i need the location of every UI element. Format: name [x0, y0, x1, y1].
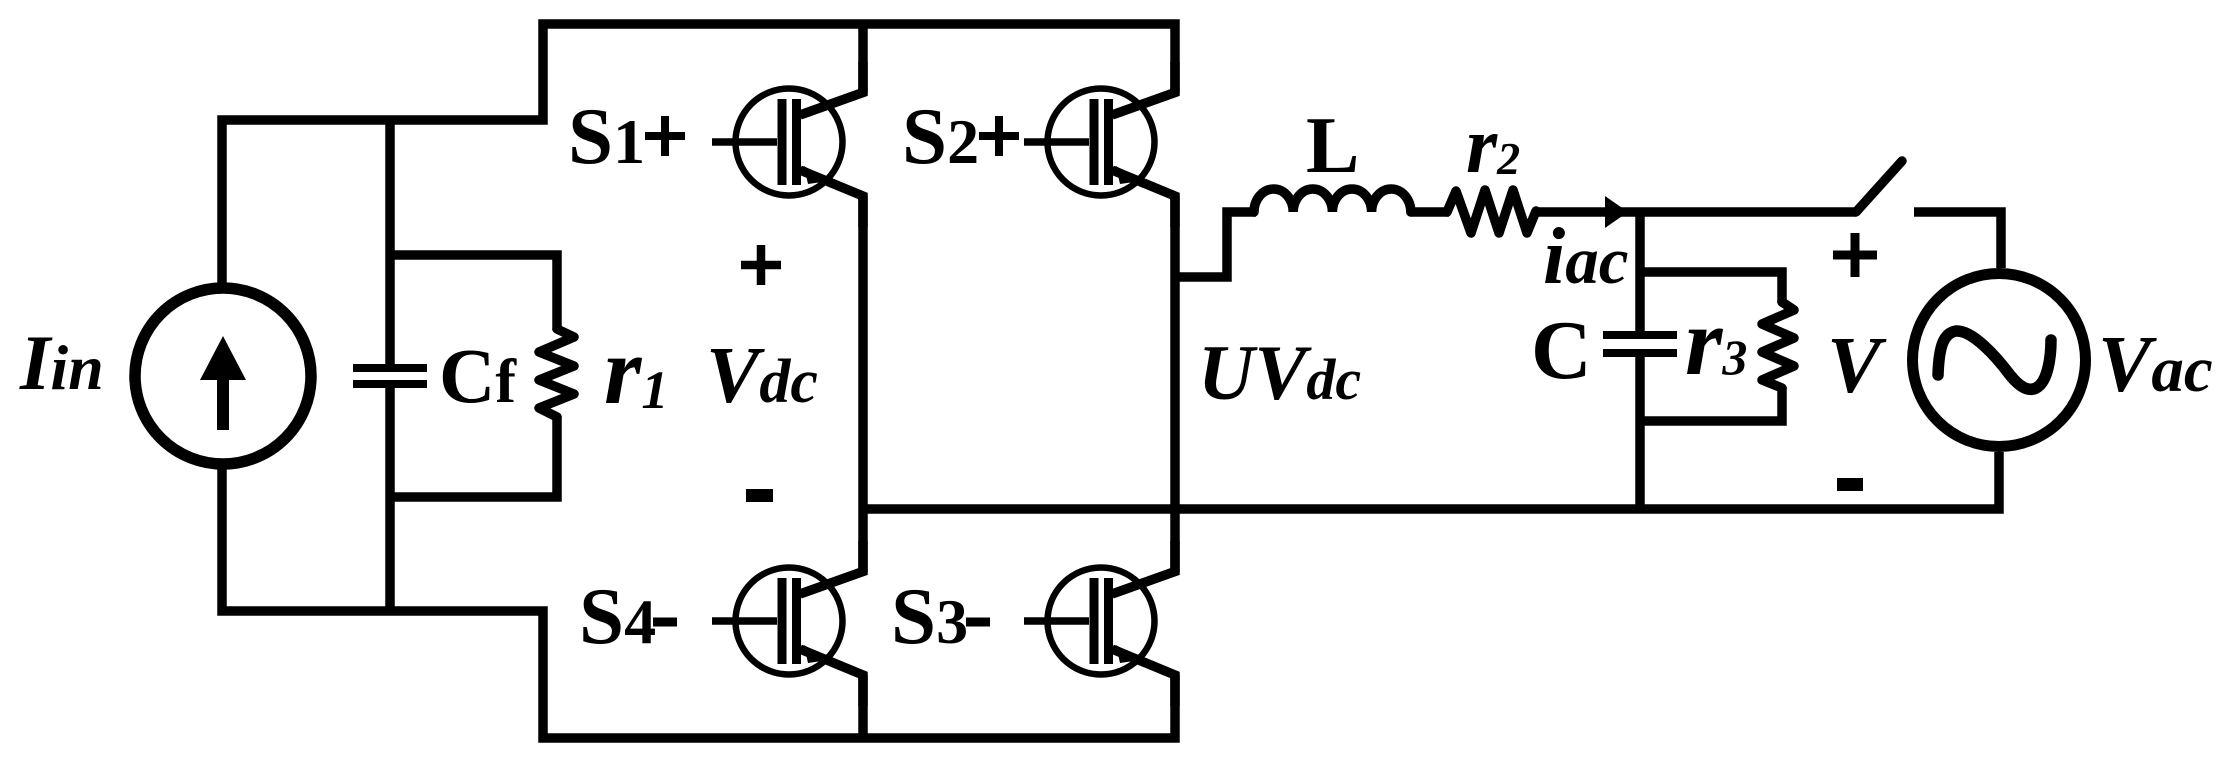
capacitor C bottom plate	[1603, 349, 1677, 357]
svg-text:L: L	[1306, 102, 1359, 190]
svg-text:Iin: Iin	[19, 319, 104, 406]
resistor r2 zigzag	[1447, 190, 1536, 233]
wire r2 to switch	[1536, 207, 1856, 217]
svg-text:C: C	[1531, 304, 1592, 397]
AC source Vac circle	[1913, 274, 2086, 447]
wire right leg middle (S2 emitter to S3 collector)	[1170, 196, 1180, 572]
current source Iin arrow shaft	[217, 372, 229, 430]
label - (S4)	[653, 618, 677, 627]
capacitor Cf top plate	[353, 364, 427, 372]
capacitor Cf bottom lead	[385, 388, 395, 611]
transistor S3	[1024, 541, 1175, 706]
wire bottom bus: Iin to bridge bottom rail and S3 emitter leg	[222, 464, 1175, 738]
transistor S2	[1024, 62, 1175, 227]
svg-text:iac: iac	[1543, 213, 1628, 301]
resistor r3 zigzag	[1762, 302, 1794, 388]
arrowhead iac	[1605, 196, 1628, 228]
capacitor C top lead	[1635, 212, 1645, 333]
wire top bus: Iin to bridge top rail and S2 collector leg	[222, 24, 1175, 288]
resistor r1 loop bottom wire	[390, 416, 557, 497]
current source Iin circle	[135, 288, 311, 464]
transistor S1	[712, 62, 863, 227]
wire S1 collector leg	[858, 24, 868, 93]
switch blade	[1856, 161, 1902, 212]
capacitor C top plate	[1603, 331, 1677, 339]
label + (S1)	[645, 116, 685, 156]
switch fixed contact wire	[1914, 212, 2001, 268]
label - (V)	[1837, 478, 1863, 491]
AC source Vac sine wave	[1938, 331, 2051, 389]
svg-text:V: V	[1827, 320, 1887, 410]
resistor r1 loop top wire	[390, 255, 557, 330]
wire bridge output to inductor	[1175, 212, 1256, 277]
transistor S4	[712, 541, 863, 706]
wire L to r2	[1411, 207, 1449, 217]
inductor L	[1254, 189, 1411, 212]
label + (S2)	[979, 116, 1019, 156]
resistor r3 loop bottom wire	[1640, 387, 1782, 421]
capacitor Cf top lead	[385, 120, 395, 364]
resistor r1 zigzag	[539, 329, 574, 417]
current source Iin arrowhead	[200, 336, 246, 380]
svg-text:Vac: Vac	[2098, 321, 2213, 409]
resistor r3 loop top wire	[1640, 272, 1782, 303]
label - (S3)	[966, 618, 990, 627]
label + (V)	[1833, 233, 1877, 277]
label + (Vdc)	[741, 245, 781, 285]
wire mid rail (bridge output bottom to Vac)	[863, 452, 1999, 509]
capacitor C bottom lead	[1635, 355, 1645, 509]
capacitor Cf bottom plate	[353, 380, 427, 388]
wire left leg middle (S1 emitter to S4 collector)	[858, 196, 868, 572]
label - (Vdc)	[746, 489, 773, 502]
wire S4 emitter leg	[858, 675, 868, 738]
